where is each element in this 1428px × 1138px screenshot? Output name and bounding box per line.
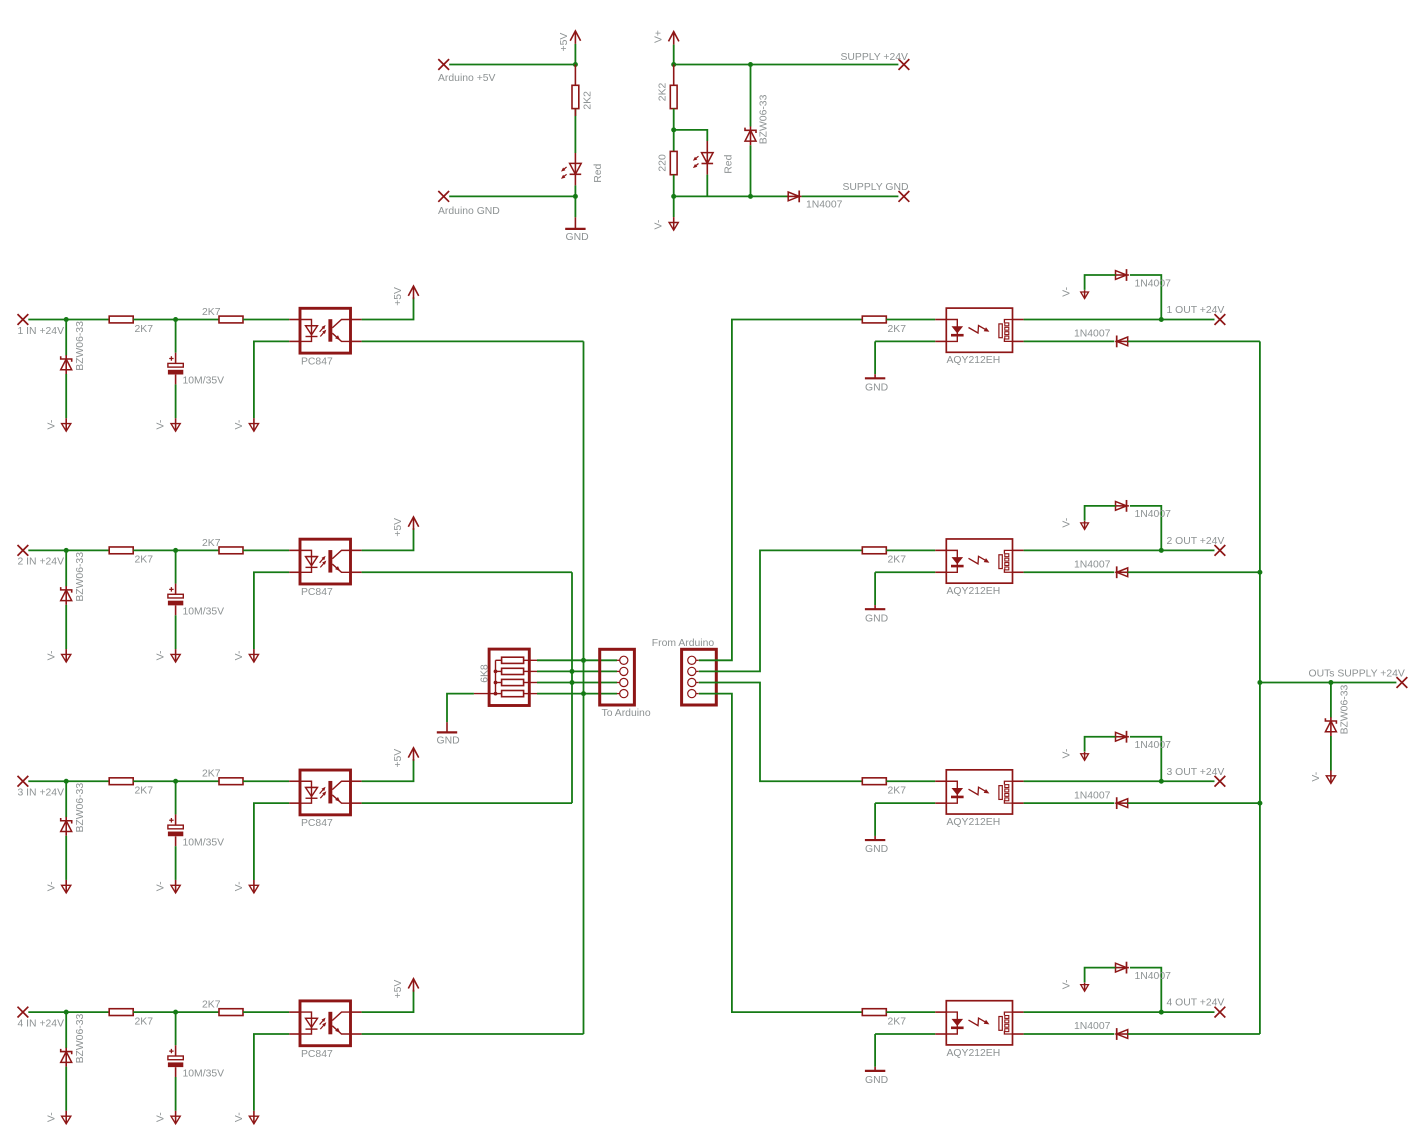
- svg-text:GND: GND: [437, 735, 460, 746]
- wire TVS to V- ch3: [65, 836, 67, 880]
- node input 3 TVS junction: [64, 779, 69, 784]
- wire SSR return ch4: [1024, 1033, 1115, 1035]
- opto pin4 lead ch1: [351, 319, 362, 321]
- node V+ junction: [671, 62, 676, 67]
- node cap junction ch4: [173, 1010, 178, 1015]
- node bus B to net2: [570, 669, 575, 674]
- capacitor 10M/35V ch1: [169, 356, 173, 360]
- wire junction to Rb ch2: [176, 549, 219, 551]
- SSR pin2 lead ch1: [935, 340, 946, 342]
- wire SSR cathode to GND ch2: [875, 571, 935, 573]
- resistor 2K7 input a ch3: [109, 778, 133, 785]
- node bus A to net1: [581, 658, 586, 663]
- power symbol V- (flyback ch1): [1084, 290, 1086, 299]
- svg-text:1N4007: 1N4007: [1135, 740, 1172, 751]
- opto pin1 lead ch1: [289, 319, 300, 321]
- resistor 2K2 (supply divider): [670, 85, 677, 108]
- svg-text:GND: GND: [865, 613, 888, 624]
- svg-text:V-: V-: [156, 420, 167, 430]
- node output junction ch1: [1159, 317, 1164, 322]
- wire 2K2 to mid junction: [673, 109, 675, 130]
- diode 1N4007 flyback top ch3: [1116, 732, 1127, 741]
- opto pin3 lead ch2: [351, 571, 362, 573]
- wire Rb to opto ch2: [243, 549, 289, 551]
- power symbol V- (flyback ch2): [1084, 521, 1086, 530]
- wire opto cathode to V- ch2: [254, 572, 289, 649]
- svg-text:GND: GND: [566, 232, 589, 243]
- resistor 2K7 drive ch3: [862, 778, 886, 785]
- wire mid junction to LED branch: [674, 130, 708, 141]
- svg-text:V-: V-: [234, 1112, 245, 1122]
- opto pin4 lead ch2: [351, 549, 362, 551]
- solid state relay AQY212EH ch1: [946, 308, 1012, 352]
- svg-text:BZW06-33: BZW06-33: [75, 1014, 86, 1064]
- opto pin1 lead ch3: [289, 780, 300, 782]
- wire junction to Rb ch4: [176, 1011, 219, 1013]
- diode 1N4007 flyback top ch1: [1116, 271, 1127, 280]
- wire From-Arduino pin 4 to output driver 4: [699, 694, 863, 1013]
- power symbol V- (supply): [673, 217, 675, 230]
- wire SSR output to terminal ch1: [1024, 319, 1215, 321]
- opto pin2 lead ch2: [289, 571, 300, 573]
- wire flyback to V- ch2: [1085, 506, 1116, 521]
- power symbol +5V ch1: [413, 286, 415, 299]
- ground GND ch4: [865, 1070, 885, 1072]
- wire junction to Rb ch1: [176, 319, 219, 321]
- SSR pin3 lead ch4: [1013, 1033, 1024, 1035]
- node OUTs TVS junction: [1328, 680, 1333, 685]
- SSR pin4 lead ch4: [1013, 1011, 1024, 1013]
- opto pin2 lead ch1: [289, 340, 300, 342]
- wire cap to V- ch1: [175, 375, 177, 385]
- ground GND (Arduino): [565, 228, 585, 230]
- svg-text:V-: V-: [46, 1112, 57, 1122]
- node 6K8 common 4: [494, 692, 498, 696]
- pin lead 6K8 element 4 right: [524, 693, 537, 695]
- svg-text:6K8: 6K8: [479, 664, 490, 683]
- node input 4 TVS junction: [64, 1010, 69, 1015]
- power symbol V- (cap ch4): [175, 1111, 177, 1124]
- terminal X 3 IN +24V: [18, 776, 29, 787]
- wire flyback to V- ch1: [1085, 275, 1116, 290]
- node input 2 TVS junction: [64, 548, 69, 553]
- resistor 2K7 input b ch2: [219, 547, 243, 554]
- wire junction to Rb ch3: [176, 780, 219, 782]
- svg-text:2K2: 2K2: [583, 91, 594, 110]
- power symbol +5V ch2: [413, 517, 415, 530]
- node input 1 TVS junction: [64, 317, 69, 322]
- svg-text:GND: GND: [865, 844, 888, 855]
- wire TVS branch ch1: [65, 320, 67, 356]
- SSR pin1 lead ch3: [935, 780, 946, 782]
- svg-text:220: 220: [658, 154, 669, 172]
- node bus OUTs supply tap: [1257, 680, 1262, 685]
- TVS diode BZW06-33 (supply): [745, 128, 756, 133]
- diode 1N4007 flyback top ch4: [1116, 963, 1127, 972]
- wire From-Arduino pin 3 to output driver 3: [699, 683, 863, 782]
- wire TVS to V- ch2: [65, 605, 67, 649]
- svg-text:V-: V-: [234, 881, 245, 891]
- terminal X 4 OUT +24V: [1215, 1007, 1226, 1018]
- power symbol +5V ch3: [413, 748, 415, 761]
- svg-text:AQY212EH: AQY212EH: [947, 586, 1001, 597]
- opto pin3 lead ch1: [351, 340, 362, 342]
- svg-text:1N4007: 1N4007: [1135, 971, 1172, 982]
- SSR pin1 lead ch4: [935, 1011, 946, 1013]
- resistor 2K7 input b ch1: [219, 316, 243, 323]
- svg-text:Red: Red: [593, 164, 604, 183]
- wire Rb to opto ch1: [243, 319, 289, 321]
- opto pin4 lead ch4: [351, 1011, 362, 1013]
- wire SSR cathode to GND ch4: [875, 1033, 935, 1035]
- wire Ra to cap junction ch1: [133, 319, 175, 321]
- wire opto cathode to V- ch3: [254, 803, 289, 880]
- svg-text:V-: V-: [1062, 287, 1073, 297]
- svg-text:V-: V-: [46, 651, 57, 661]
- wire OUTs SUPPLY rail: [1260, 682, 1397, 684]
- svg-text:V-: V-: [1311, 772, 1322, 782]
- resistor network 6K8 box: [489, 649, 529, 705]
- svg-text:+5V: +5V: [393, 287, 404, 306]
- wire TVS to V- ch1: [65, 374, 67, 418]
- svg-text:To Arduino: To Arduino: [602, 708, 651, 719]
- wire collector to +5V ch1: [362, 297, 414, 319]
- terminal X SUPPLY GND: [899, 191, 910, 202]
- opto pin3 lead ch3: [351, 802, 362, 804]
- svg-text:GND: GND: [865, 383, 888, 394]
- capacitor 10M/35V ch4: [169, 1049, 173, 1053]
- wire mid bus A (ch1-ch4 emitters): [583, 341, 585, 1034]
- wire return diode to supply bus ch4: [1128, 1033, 1260, 1035]
- wire Ra to cap junction ch2: [133, 549, 175, 551]
- TVS diode BZW06-33 ch1: [61, 356, 72, 361]
- wire From-Arduino pin 1 to output driver 1: [699, 320, 863, 661]
- wire input 3 to R: [28, 780, 109, 782]
- svg-text:2K7: 2K7: [135, 555, 154, 566]
- pin lead 6K8 element 1 right: [524, 659, 537, 661]
- svg-text:1 IN +24V: 1 IN +24V: [18, 326, 65, 337]
- svg-text:4 OUT +24V: 4 OUT +24V: [1167, 998, 1225, 1009]
- node TVS bottom junction: [748, 194, 753, 199]
- wire SSR return ch2: [1024, 571, 1115, 573]
- SSR pin3 lead ch3: [1013, 802, 1024, 804]
- wire net3 to To-Arduino pin 3: [537, 682, 617, 684]
- wire emitter to mid bus ch2: [362, 571, 572, 573]
- svg-text:2K7: 2K7: [135, 786, 154, 797]
- node output junction ch3: [1159, 779, 1164, 784]
- wire supply LED to bottom rail: [706, 175, 708, 197]
- wire R to SSR ch3: [886, 780, 935, 782]
- resistor 2K7 input a ch2: [109, 547, 133, 554]
- svg-text:V-: V-: [156, 1112, 167, 1122]
- resistor 6K8 element 4: [502, 691, 524, 697]
- power symbol V- (opto ch4): [253, 1111, 255, 1124]
- svg-text:2 OUT +24V: 2 OUT +24V: [1167, 536, 1225, 547]
- wire OUTs TVS branch: [1330, 683, 1332, 718]
- svg-text:1N4007: 1N4007: [1074, 790, 1111, 801]
- svg-text:10M/35V: 10M/35V: [183, 607, 225, 618]
- SSR pin4 lead ch2: [1013, 549, 1024, 551]
- wire input 2 to R: [28, 549, 109, 551]
- SSR pin4 lead ch3: [1013, 780, 1024, 782]
- wire junction to GND symbol: [574, 196, 576, 217]
- pin lead 6K8 common out: [474, 693, 496, 695]
- capacitor 10M/35V ch3: [169, 818, 173, 822]
- node cap junction ch2: [173, 548, 178, 553]
- node output junction ch4: [1159, 1010, 1164, 1015]
- node TVS tap junction: [748, 62, 753, 67]
- node cap junction ch1: [173, 317, 178, 322]
- svg-text:PC847: PC847: [301, 356, 333, 367]
- opto pin3 lead ch4: [351, 1033, 362, 1035]
- node bus B to net3: [570, 680, 575, 685]
- svg-text:1N4007: 1N4007: [1074, 559, 1111, 570]
- svg-text:2K7: 2K7: [135, 324, 154, 335]
- wire opto cathode to V- ch4: [254, 1034, 289, 1111]
- wire +5V arrow to junction: [574, 44, 576, 65]
- diode 1N4007 return ch3: [1117, 799, 1128, 808]
- wire mid bus B (ch2-ch3 emitters): [571, 572, 573, 803]
- wire cap to V- ch4: [175, 1067, 177, 1077]
- wire cap to V- ch3: [175, 836, 177, 846]
- wire R to SSR ch1: [886, 319, 935, 321]
- connector To Arduino: [600, 649, 635, 705]
- wire Arduino +5V rail: [449, 64, 575, 66]
- svg-text:4 IN +24V: 4 IN +24V: [18, 1018, 65, 1029]
- terminal X 4 IN +24V: [18, 1007, 29, 1018]
- svg-text:PC847: PC847: [301, 818, 333, 829]
- optocoupler PC847 ch1: [300, 308, 351, 353]
- wire R to SSR ch4: [886, 1011, 935, 1013]
- wire cap branch ch3: [175, 781, 177, 814]
- TVS diode BZW06-33 (outputs): [1325, 718, 1336, 723]
- resistor 6K8 element 1: [502, 657, 524, 663]
- wire junction to 2K2: [673, 65, 675, 86]
- svg-text:V-: V-: [46, 420, 57, 430]
- wire cap branch ch4: [175, 1012, 177, 1045]
- wire SSR return ch1: [1024, 340, 1115, 342]
- node 6K8 common 2: [494, 670, 498, 674]
- svg-text:2K7: 2K7: [202, 307, 221, 318]
- svg-text:SUPPLY GND: SUPPLY GND: [843, 182, 909, 193]
- wire emitter to mid bus ch4: [362, 1033, 584, 1035]
- wire flyback to V- ch3: [1085, 737, 1116, 752]
- power symbol V- (opto ch3): [253, 880, 255, 893]
- wire V+ to junction: [673, 45, 675, 65]
- TVS diode BZW06-33 ch2: [61, 587, 72, 592]
- wire cap to V- ch2: [175, 605, 177, 615]
- SSR pin1 lead ch2: [935, 549, 946, 551]
- svg-text:2K7: 2K7: [888, 786, 907, 797]
- wire TVS branch ch3: [65, 781, 67, 817]
- SSR pin1 lead ch1: [935, 319, 946, 321]
- svg-text:OUTs SUPPLY +24V: OUTs SUPPLY +24V: [1309, 668, 1405, 679]
- terminal X OUTs SUPPLY +24V: [1397, 677, 1408, 688]
- wire Arduino GND rail: [449, 195, 575, 197]
- ground GND ch3: [865, 839, 885, 841]
- svg-text:GND: GND: [865, 1075, 888, 1086]
- wire emitter to mid bus ch3: [362, 802, 572, 804]
- wire Ra to cap junction ch3: [133, 780, 175, 782]
- node Arduino GND junction: [573, 194, 578, 199]
- solid state relay AQY212EH ch2: [946, 539, 1012, 583]
- wire flyback branch ch4: [1130, 968, 1161, 1013]
- wire TVS branch ch2: [65, 550, 67, 586]
- terminal X 3 OUT +24V: [1215, 776, 1226, 787]
- node 6K8 common 3: [494, 681, 498, 685]
- TVS diode BZW06-33 ch4: [61, 1049, 72, 1054]
- SSR pin3 lead ch2: [1013, 571, 1024, 573]
- resistor 2K2 (Arduino LED): [572, 85, 579, 108]
- node supply GND junction: [671, 194, 676, 199]
- TVS diode BZW06-33 ch3: [61, 818, 72, 823]
- node bus A to net4: [581, 691, 586, 696]
- wire flyback branch ch1: [1130, 275, 1161, 320]
- node divider mid junction: [671, 127, 676, 132]
- svg-text:PC847: PC847: [301, 1049, 333, 1060]
- svg-text:AQY212EH: AQY212EH: [947, 1048, 1001, 1059]
- power symbol V- (TVS ch1): [65, 418, 67, 431]
- node bus ch2: [1257, 570, 1262, 575]
- svg-text:3 OUT +24V: 3 OUT +24V: [1167, 767, 1225, 778]
- svg-text:V-: V-: [46, 881, 57, 891]
- svg-text:BZW06-33: BZW06-33: [75, 321, 86, 371]
- node bus ch3: [1257, 801, 1262, 806]
- power symbol V- (cap ch3): [175, 880, 177, 893]
- wire SSR output to terminal ch3: [1024, 780, 1215, 782]
- wire net2 to To-Arduino pin 2: [537, 670, 617, 672]
- wire TVS branch ch4: [65, 1012, 67, 1048]
- svg-text:2K7: 2K7: [202, 1000, 221, 1011]
- wire Rb to opto ch3: [243, 780, 289, 782]
- wire cap branch ch2: [175, 550, 177, 583]
- svg-text:BZW06-33: BZW06-33: [1340, 685, 1351, 735]
- resistor 2K7 input a ch1: [109, 316, 133, 323]
- wire bottom rail to V-: [673, 196, 675, 217]
- svg-text:Arduino GND: Arduino GND: [438, 206, 500, 217]
- ground GND ch2: [865, 608, 885, 610]
- wire input 4 to R: [28, 1011, 109, 1013]
- svg-text:2K7: 2K7: [888, 324, 907, 335]
- wire bottom rail to diode: [674, 195, 789, 197]
- svg-text:AQY212EH: AQY212EH: [947, 355, 1001, 366]
- wire V+ rail to TVS: [750, 65, 752, 127]
- svg-text:1N4007: 1N4007: [1074, 329, 1111, 340]
- wire return diode to supply bus ch2: [1128, 571, 1260, 573]
- wire SSR output to terminal ch2: [1024, 549, 1215, 551]
- wire 6K8 common to GND: [447, 694, 474, 723]
- diode 1N4007 (supply gnd): [788, 192, 799, 201]
- wire input 1 to R: [28, 319, 109, 321]
- svg-text:2 IN +24V: 2 IN +24V: [18, 557, 65, 568]
- svg-text:1N4007: 1N4007: [1074, 1021, 1111, 1032]
- svg-text:V-: V-: [1062, 518, 1073, 528]
- power symbol +5V ch4: [413, 979, 415, 992]
- resistor 2K7 input b ch4: [219, 1009, 243, 1016]
- wire Ra to cap junction ch4: [133, 1011, 175, 1013]
- pin lead 6K8 element 3 right: [524, 682, 537, 684]
- power symbol V- (flyback ch4): [1084, 983, 1086, 992]
- ground GND ch1: [865, 377, 885, 379]
- diode 1N4007 return ch2: [1117, 568, 1128, 577]
- svg-text:V-: V-: [1062, 979, 1073, 989]
- svg-text:BZW06-33: BZW06-33: [758, 94, 769, 144]
- svg-text:From Arduino: From Arduino: [652, 638, 715, 649]
- wire R bottom to LED: [574, 109, 576, 153]
- svg-text:2K7: 2K7: [202, 538, 221, 549]
- wire flyback to V- ch4: [1085, 968, 1116, 983]
- svg-text:1N4007: 1N4007: [806, 200, 843, 211]
- wire net4 to To-Arduino pin 4: [537, 693, 617, 695]
- power symbol V- (cap ch2): [175, 649, 177, 662]
- SSR pin3 lead ch1: [1013, 340, 1024, 342]
- wire TVS to GND rail: [750, 145, 752, 196]
- svg-text:V-: V-: [156, 881, 167, 891]
- svg-text:+5V: +5V: [393, 980, 404, 999]
- svg-text:Arduino +5V: Arduino +5V: [438, 73, 496, 84]
- wire OUT supply bus vertical: [1259, 341, 1261, 1034]
- svg-text:BZW06-33: BZW06-33: [75, 552, 86, 602]
- wire TVS to V- ch4: [65, 1067, 67, 1111]
- connector From Arduino: [682, 649, 717, 705]
- wire opto cathode to V- ch1: [254, 341, 289, 418]
- wire SSR cathode to GND ch3: [875, 802, 935, 804]
- power symbol V- (cap ch1): [175, 418, 177, 431]
- svg-text:V-: V-: [234, 651, 245, 661]
- SSR pin2 lead ch2: [935, 571, 946, 573]
- svg-text:AQY212EH: AQY212EH: [947, 817, 1001, 828]
- svg-text:+5V: +5V: [393, 518, 404, 537]
- solid state relay AQY212EH ch4: [946, 1001, 1012, 1045]
- node output junction ch2: [1159, 548, 1164, 553]
- SSR pin4 lead ch1: [1013, 319, 1024, 321]
- diode 1N4007 return ch4: [1117, 1030, 1128, 1039]
- svg-text:1 OUT +24V: 1 OUT +24V: [1167, 305, 1225, 316]
- resistor 6K8 element 3: [502, 679, 524, 685]
- svg-text:V-: V-: [1062, 749, 1073, 759]
- resistor 220: [673, 130, 675, 152]
- wire emitter to mid bus ch1: [362, 340, 584, 342]
- wire cap branch ch1: [175, 320, 177, 353]
- resistor 2K7 input b ch3: [219, 778, 243, 785]
- optocoupler PC847 ch4: [300, 1001, 351, 1046]
- diode 1N4007 flyback top ch2: [1116, 501, 1127, 510]
- wire collector to +5V ch4: [362, 990, 414, 1012]
- wire SSR cathode to GND ch1: [875, 340, 935, 342]
- optocoupler PC847 ch3: [300, 770, 351, 815]
- terminal X 1 OUT +24V: [1215, 314, 1226, 325]
- resistor 2K7 drive ch2: [862, 547, 886, 554]
- opto pin2 lead ch3: [289, 802, 300, 804]
- wire LED to GND junction: [574, 185, 576, 196]
- svg-text:1N4007: 1N4007: [1135, 509, 1172, 520]
- svg-text:BZW06-33: BZW06-33: [75, 783, 86, 833]
- node cap junction ch3: [173, 779, 178, 784]
- resistor 2K7 drive ch4: [862, 1009, 886, 1016]
- wire flyback branch ch2: [1130, 506, 1161, 551]
- node Arduino +5V junction: [573, 62, 578, 67]
- svg-text:+5V: +5V: [393, 749, 404, 768]
- svg-text:V-: V-: [156, 651, 167, 661]
- svg-text:10M/35V: 10M/35V: [183, 376, 225, 387]
- wire net1 to To-Arduino pin 1: [537, 659, 617, 661]
- wire SUPPLY +24V rail: [674, 64, 899, 66]
- svg-text:2K7: 2K7: [888, 1016, 907, 1027]
- capacitor 10M/35V ch2: [169, 587, 173, 591]
- wire flyback branch ch3: [1130, 737, 1161, 782]
- svg-text:SUPPLY +24V: SUPPLY +24V: [841, 52, 909, 63]
- wire 220 to bottom rail: [673, 175, 675, 197]
